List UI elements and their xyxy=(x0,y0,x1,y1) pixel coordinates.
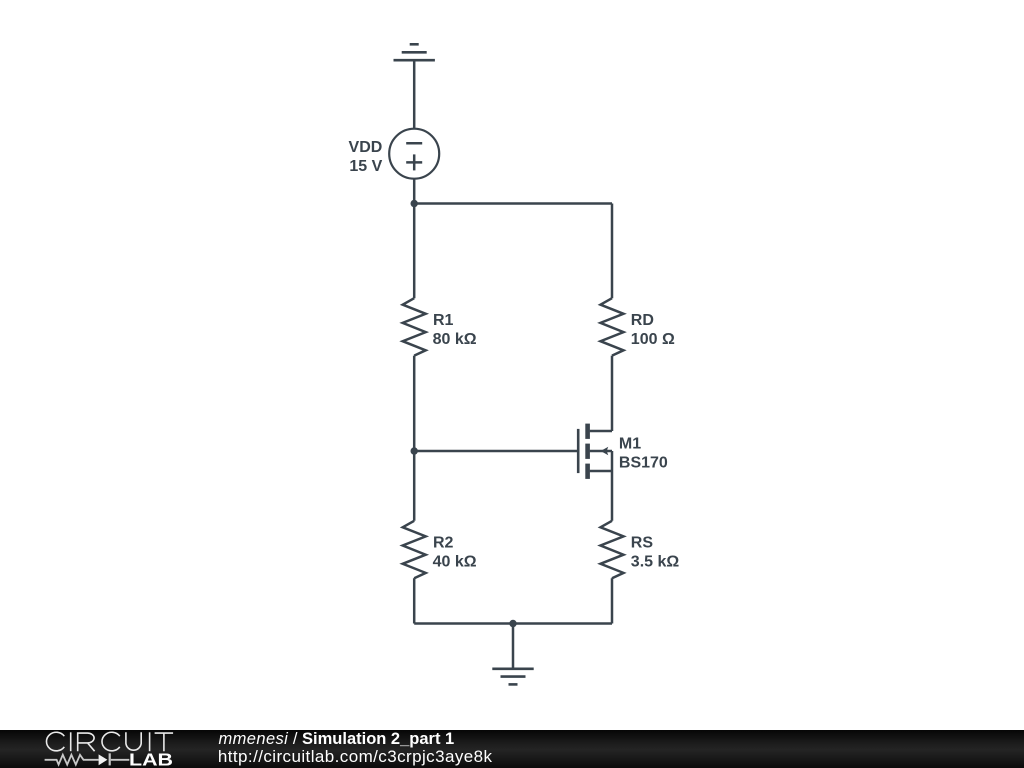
wire right branch down to RD xyxy=(611,204,614,299)
voltage source VDD xyxy=(389,129,439,179)
CircuitLab logo xyxy=(0,730,190,768)
logo letter C2 xyxy=(102,732,120,751)
svg-text:RS: RS xyxy=(631,535,654,552)
logo squiggle resistor+diode xyxy=(45,753,130,765)
svg-text:15 V: 15 V xyxy=(349,158,382,175)
resistor R2 xyxy=(403,521,426,578)
logo letter I xyxy=(70,732,72,751)
wire top rail horizontal xyxy=(414,202,612,205)
wire node B to R2 xyxy=(413,451,416,521)
svg-text:RD: RD xyxy=(631,312,654,329)
logo letter U xyxy=(126,732,141,750)
footer bar xyxy=(0,730,1024,768)
resistor R1 xyxy=(403,298,426,355)
node C (ground junction) xyxy=(509,620,516,627)
svg-text:VDD: VDD xyxy=(349,139,383,156)
resistor RD xyxy=(601,298,624,355)
wire source to RS xyxy=(611,471,614,521)
logo letter C xyxy=(46,732,64,751)
node B (gate junction) xyxy=(411,447,418,454)
svg-text:M1: M1 xyxy=(619,436,641,453)
logo letter I2 xyxy=(149,732,151,751)
wire node C to ground xyxy=(512,624,515,669)
svg-text:80 kΩ: 80 kΩ xyxy=(433,331,477,348)
footer title text xyxy=(219,730,455,750)
wire left branch node A to R1 xyxy=(413,204,416,299)
ground (top power rail) xyxy=(394,44,435,60)
svg-text:40 kΩ: 40 kΩ xyxy=(433,553,477,570)
wire VDD bottom to node A xyxy=(413,179,416,204)
wire RS to bottom rail xyxy=(611,578,614,623)
wire gate horizontal xyxy=(414,450,577,453)
svg-text:LAB: LAB xyxy=(129,749,173,767)
wire ground to VDD top xyxy=(413,60,416,129)
svg-text:R2: R2 xyxy=(433,535,454,552)
wire RD to drain xyxy=(611,356,614,431)
wire R1 to node B xyxy=(413,356,416,451)
transistor M1 xyxy=(578,424,612,479)
logo letter R xyxy=(78,733,95,751)
wire R2 to bottom rail xyxy=(413,578,416,623)
svg-text:R1: R1 xyxy=(433,312,454,329)
logo letter T xyxy=(155,733,174,751)
svg-text:3.5 kΩ: 3.5 kΩ xyxy=(631,553,680,570)
node A (VDD junction) xyxy=(411,200,418,207)
ground (bottom) xyxy=(492,669,533,685)
footer url text xyxy=(218,747,493,767)
svg-text:BS170: BS170 xyxy=(619,454,668,471)
resistor RS xyxy=(601,521,624,578)
svg-text:100 Ω: 100 Ω xyxy=(631,331,675,348)
wire bottom rail horizontal xyxy=(414,622,612,625)
